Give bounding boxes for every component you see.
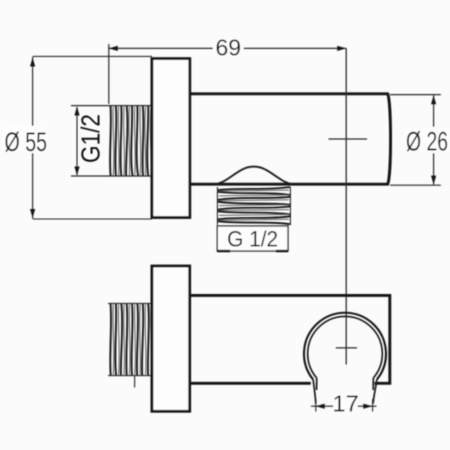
label box G 1/2 (outlet thread)	[217, 226, 288, 252]
dimension line Ø55 (left)	[2, 56, 152, 219]
holder fork left edge	[313, 378, 317, 404]
left pipe threads (top view)	[110, 106, 151, 176]
svg-text:Ø 55: Ø 55	[5, 127, 48, 157]
outlet thread side edges	[217, 187, 290, 225]
svg-text:G1/2: G1/2	[76, 114, 106, 163]
dimension G1/2 (pipe thread label, top view)	[74, 107, 105, 176]
outlet branch threads (top view)	[218, 187, 290, 224]
dimension Ø26 (right)	[390, 95, 450, 186]
body block (bottom view)	[190, 295, 390, 383]
thread boundary lines (bottom view pipe)	[108, 303, 152, 375]
centerline cross (top view body)	[329, 138, 368, 140]
vertical centerline through outlet axis	[345, 48, 347, 364]
svg-text:69: 69	[216, 35, 242, 61]
holder ring outer arc (bottom view)	[304, 313, 386, 380]
thread tail mark (bottom view)	[134, 376, 136, 388]
dimension 69 (top)	[109, 35, 346, 104]
wall flange (top view)	[152, 59, 190, 218]
dimension 17 (bottom)	[311, 390, 377, 416]
outlet dome boss (top view)	[214, 167, 294, 185]
svg-text:Ø 26: Ø 26	[406, 127, 448, 157]
thread boundary lines (top view pipe)	[71, 106, 152, 176]
svg-text:17: 17	[333, 390, 359, 416]
holder ring inner arc	[308, 316, 383, 378]
svg-text:G 1/2: G 1/2	[227, 227, 278, 252]
ring center cross tick	[336, 347, 357, 349]
body cylinder (top view)	[190, 94, 391, 184]
wall flange (bottom view)	[152, 266, 190, 411]
left pipe threads (bottom view)	[110, 303, 151, 375]
holder fork right edge	[373, 378, 377, 404]
